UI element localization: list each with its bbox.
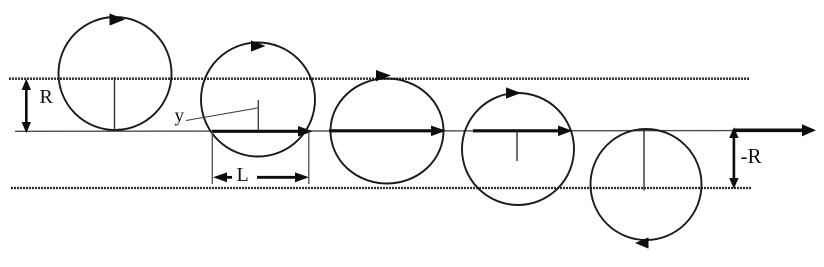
circle 2 direction arrow (251, 40, 266, 51)
circle 1 (59, 17, 172, 130)
L dimension left extension line (211, 132, 213, 185)
circle 3 velocity arrow (329, 126, 446, 137)
svg-text:L: L (237, 164, 249, 186)
axis end arrow (734, 124, 816, 136)
svg-text:-R: -R (741, 144, 762, 168)
circle 4 (462, 93, 574, 205)
circle 2 vertical chord line (257, 100, 259, 132)
circle 5 vertical radius line (643, 130, 645, 191)
L dimension right arrow (257, 172, 309, 182)
circle 1 direction arrow (110, 13, 126, 25)
circle 4 direction arrow (506, 87, 521, 98)
circle 3 (331, 79, 444, 184)
middle axis line (15, 130, 740, 133)
circle 2 velocity arrow (212, 126, 313, 137)
y leader line (186, 108, 258, 121)
circle 3 direction arrow (376, 70, 391, 81)
top dotted boundary line (9, 78, 749, 80)
circle 4 velocity arrow (473, 126, 573, 137)
circle 1 radius line (114, 77, 116, 131)
svg-text:R: R (40, 86, 54, 108)
circle 4 vertical chord line (516, 132, 518, 162)
R dimension double arrow (22, 79, 31, 133)
-R dimension double arrow (729, 127, 738, 188)
circle 5 (591, 129, 702, 240)
L dimension right extension line (308, 132, 310, 185)
circle 2 (201, 43, 315, 157)
svg-text:y: y (175, 106, 185, 127)
bottom dotted boundary line (11, 187, 751, 189)
L dimension left arrow (213, 172, 232, 182)
circle 5 direction arrow (635, 237, 649, 248)
